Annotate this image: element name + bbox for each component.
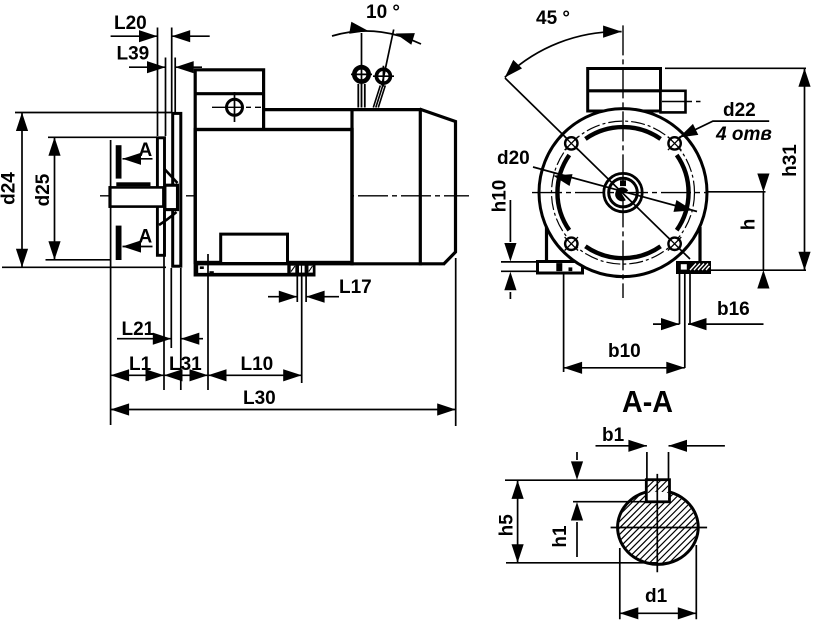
dimension L30 [111,409,456,411]
foot slot white window 4 [309,266,313,273]
bolt hole bottom-left [565,238,577,250]
dimension d25 [46,137,158,259]
extension line motor rear [455,258,457,426]
centerline shaft axis [100,195,469,197]
motor body [195,130,352,263]
dimension d1 [620,545,697,619]
extension lines foot slot front [680,274,691,368]
foot slot white window 2 [299,266,301,273]
right riser [698,227,701,261]
bell cone upper line [165,169,178,183]
foot slot white window 3 [302,266,305,273]
terminal box front divider [588,89,661,92]
left foot slot mark [569,267,573,271]
foot plate side bottom edge [197,273,316,277]
foot front slot mark 2 [209,271,213,274]
section arrow A top [123,153,142,165]
dimension d24 [2,113,172,268]
grease bolt 2 ring [376,69,390,83]
svg-text:d25: d25 [33,173,54,206]
dimension L21 [117,338,203,340]
bolt circle d20 dash [552,121,695,264]
hatch squiggle in window 4 [309,266,313,272]
left foot slot bar [556,263,562,271]
eyebolt vertical centerline [234,92,236,122]
fan cover and body bottom edge [195,262,445,265]
grease bolt 1 ring [354,67,368,81]
dimension L20 [158,28,172,137]
grease bolt 1 stem [358,84,365,108]
section arrow A bottom [123,240,142,252]
vertical centerline front view [622,25,624,298]
foot pad block [221,234,288,262]
bell cone lower line [159,212,177,225]
dimension 10 degrees arc [332,31,421,44]
grease bolt 2 cross [373,66,394,87]
dimension h10 [501,262,536,271]
svg-text:h10: h10 [490,180,511,213]
terminal box front view [588,69,661,112]
svg-text:L21: L21 [122,319,155,340]
svg-text:b16: b16 [717,299,750,320]
fan cover chamfer and right edge [420,109,456,264]
bolt hole top-right [668,137,680,149]
shaft circle [609,178,638,207]
terminal box side lug [661,91,686,113]
grease bolt 1 cross [351,64,372,85]
svg-text:h1: h1 [550,525,571,548]
svg-text:d1: d1 [645,586,668,607]
key section rect [646,480,669,502]
spigot circle d25 [585,246,660,258]
svg-text:L17: L17 [339,277,372,298]
right foot hatching [690,264,710,271]
terminal box divider [195,92,263,95]
left foot front view [538,262,583,274]
svg-text:h31: h31 [780,144,801,177]
dimension h31 [665,67,806,69]
dimension b16 [653,323,764,325]
svg-text:10 °: 10 ° [366,2,400,23]
foot front slot mark 1 [200,266,204,269]
shaft [110,187,163,206]
svg-text:d22: d22 [723,100,756,121]
extension lines foot slot rear [297,277,306,384]
dimension b1 [647,452,669,479]
leader d22 [679,121,769,137]
bolt hole top-left [565,137,577,149]
foot slot white window 1 [291,266,296,273]
svg-text:A: A [139,140,153,161]
extension lines flange faces [171,268,181,390]
key section outline [646,480,669,502]
foot right section solid [287,261,315,275]
flange outer circle d24 [539,109,707,277]
terminal box side view [195,70,263,277]
shaft end edge [108,186,111,208]
extension line b10 left [563,274,565,372]
dimension L10 [208,374,302,376]
section vertical centerline [656,474,658,572]
dimension L17 [268,296,339,298]
dimension L39 [166,58,176,137]
svg-text:d20: d20 [497,148,530,169]
section horizontal centerline [611,527,708,529]
svg-text:b10: b10 [608,341,641,362]
section plane bar A top [116,145,122,178]
foot plate side view top edge [195,261,316,265]
svg-text:L1: L1 [129,354,152,375]
svg-text:h5: h5 [497,514,518,537]
fan cover joint line [350,108,353,265]
right foot front view solid [676,261,711,274]
svg-text:A: A [139,227,153,248]
svg-text:45 °: 45 ° [536,8,570,29]
svg-text:d24: d24 [0,172,20,205]
fan cover inner vertical line [419,108,422,265]
dimension 45 degrees [505,32,622,78]
svg-text:L30: L30 [243,388,276,409]
box plinth shoulder [264,108,352,111]
shaft hub [165,185,178,209]
dimension h5 [505,480,658,563]
extension line hub face [163,212,165,390]
svg-text:L10: L10 [241,354,274,375]
eyebolt horizontal centerline [212,106,261,108]
keyway front view [620,180,626,186]
dimension d20 [533,167,697,212]
extension line shaft end [110,140,112,425]
extension line foot hole front [207,254,209,390]
dimension h [711,269,806,271]
dimension L31 [164,374,208,376]
dimension b10 [564,367,685,369]
svg-text:L20: L20 [114,13,147,34]
key on shaft [116,182,150,186]
lug centerline [662,101,701,103]
left riser [545,227,548,261]
svg-text:4 отв: 4 отв [715,124,772,145]
shaft boss outer circle [604,173,642,211]
fan cover top edge [352,108,420,111]
svg-text:b1: b1 [602,425,625,446]
bearing shield disc d25 [157,138,164,256]
eyebolt circle [227,99,243,115]
right foot slot white window [681,264,687,269]
flange disc d24 [173,113,181,266]
horizontal centerline front view [532,192,706,194]
dimension L1 [111,374,164,376]
dimension h1 [573,501,646,503]
svg-text:L31: L31 [169,354,202,375]
bolt hole bottom-right [668,238,680,250]
svg-text:h: h [739,219,760,231]
shaft section circle [618,492,699,564]
svg-text:A-A: A-A [622,384,673,419]
grease bolt 2 stem [373,86,385,108]
svg-text:L39: L39 [117,44,150,65]
hatch squiggle in window 1 [291,266,295,272]
foot left edge [195,263,198,275]
shaft center hole mark [615,187,628,201]
45 degree diagonal line [505,78,690,259]
section plane bar A bottom [116,226,122,260]
